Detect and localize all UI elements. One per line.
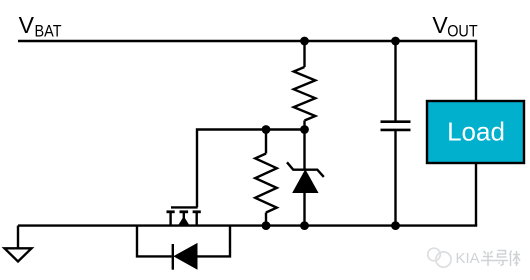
- svg-text:BAT: BAT: [35, 22, 62, 40]
- capacitor C1: [381, 41, 411, 226]
- zener diode D1: [287, 130, 324, 226]
- load U1: [427, 101, 524, 163]
- diode triangle: [174, 244, 197, 269]
- node bottom rail / D1: [300, 221, 309, 230]
- source finger: [195, 212, 197, 226]
- glyph ti: [510, 251, 521, 267]
- glyph dao: [495, 251, 508, 266]
- node top rail / C1: [391, 37, 400, 46]
- svg-text:Load: Load: [447, 117, 505, 147]
- drain finger: [169, 212, 171, 226]
- hand-drawn CJK glyphs (half-conductor) in light gray: [481, 251, 520, 267]
- resistor R1: [294, 41, 316, 130]
- node bottom rail / C1: [391, 221, 400, 230]
- node junction dots: [262, 37, 400, 230]
- logo KIA semiconductor watermark: [428, 248, 451, 267]
- svg-text:V: V: [432, 12, 448, 38]
- wire gate net from divider to gate: [197, 130, 303, 208]
- wire top rail VBAT to VOUT corner: [18, 41, 476, 101]
- gate bar: [171, 206, 198, 208]
- node top rail / R1: [300, 37, 309, 46]
- wire left drop of loop: [137, 226, 172, 257]
- node gate wire / R2 top: [262, 125, 271, 134]
- node bottom rail / R2: [262, 221, 271, 230]
- wire right side of loop: [196, 226, 230, 257]
- body diode D2 loop: [137, 226, 230, 270]
- wire bottom rail: [18, 224, 477, 226]
- resistor R2: [255, 130, 277, 226]
- svg-text:KIA: KIA: [456, 250, 480, 267]
- glyph ban: [481, 251, 495, 266]
- ground: [5, 226, 32, 262]
- bulk finger with arrow: [183, 212, 185, 226]
- svg-text:OUT: OUT: [447, 22, 478, 40]
- svg-text:V: V: [19, 12, 35, 38]
- MOSFET Q1: [167, 207, 201, 225]
- wire load bottom to rail: [475, 163, 477, 226]
- channel segment caps: [167, 210, 175, 213]
- node gate wire / R1 bottom: [300, 125, 309, 134]
- cathode bar: [172, 244, 174, 270]
